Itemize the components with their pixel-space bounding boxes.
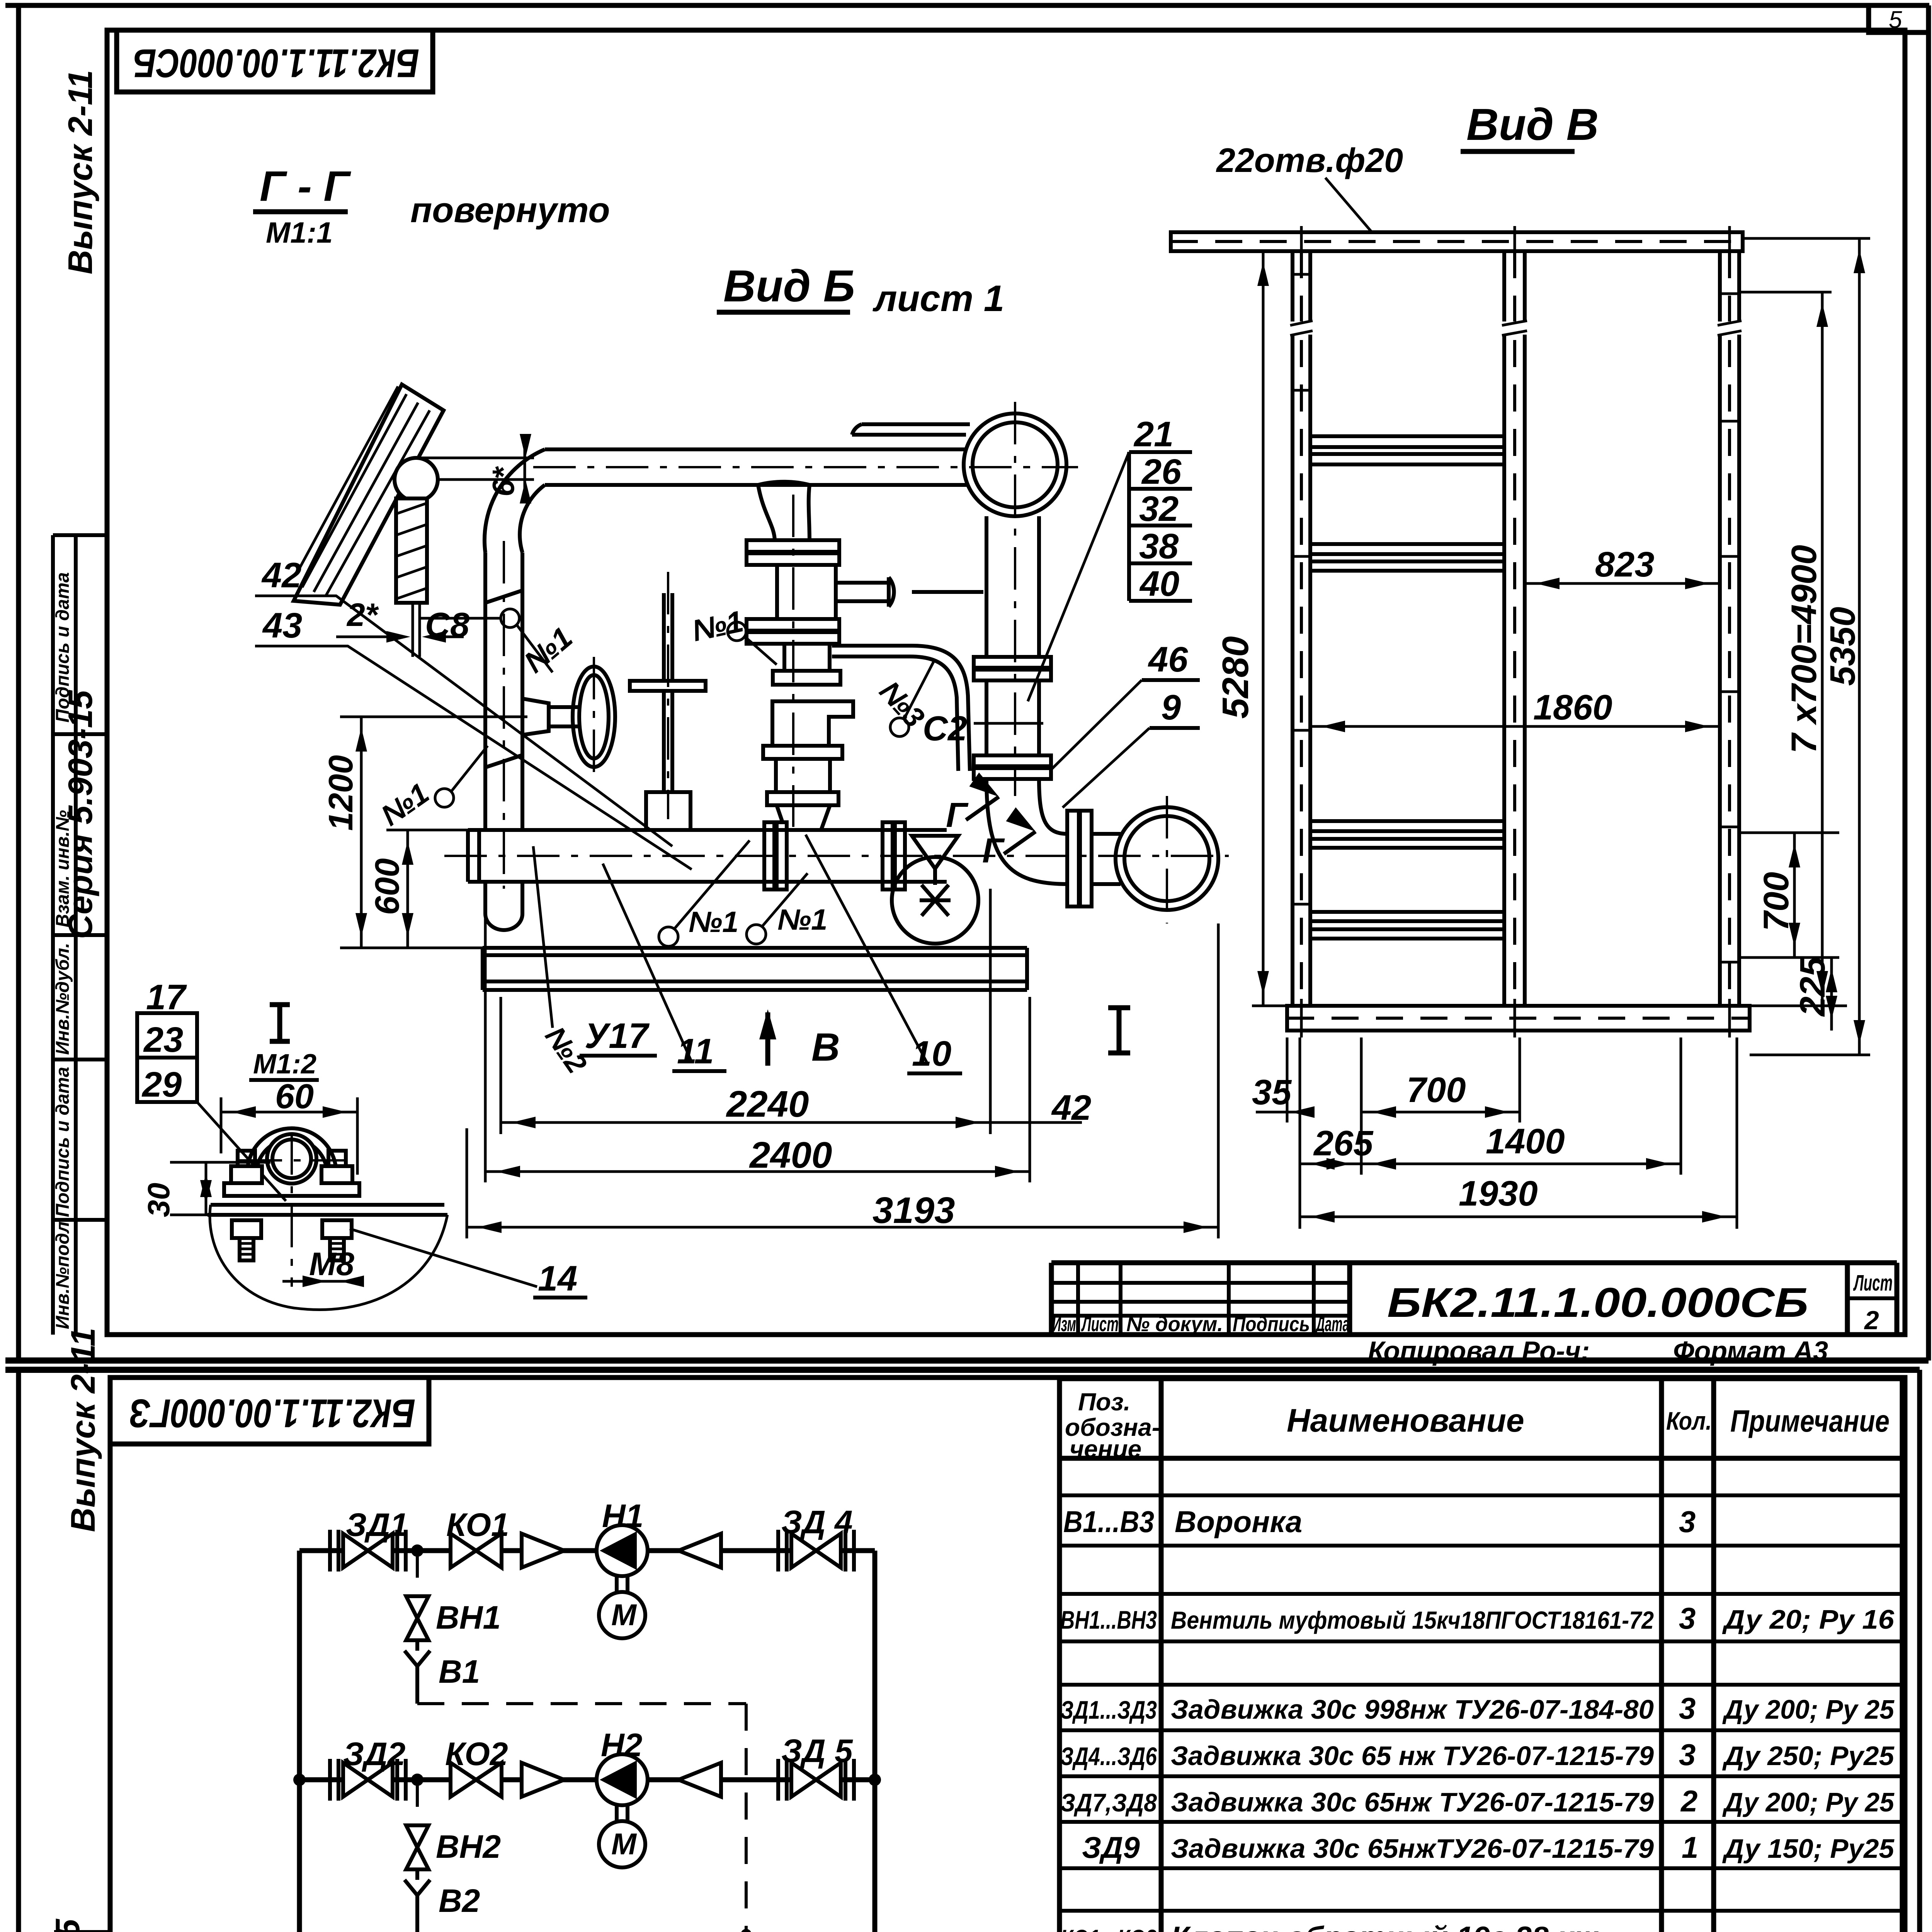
svg-text:ЗД4...ЗД6: ЗД4...ЗД6 [1060,1742,1157,1770]
svg-text:823: 823 [1595,545,1655,584]
svg-text:ВН1: ВН1 [436,1599,501,1636]
svg-text:Г - Г: Г - Г [260,163,351,210]
svg-text:Лист: Лист [1081,1313,1119,1336]
svg-text:23: 23 [143,1020,183,1060]
wire funnel to drain header [415,1676,419,1704]
svg-text:Задвижка 30с 65нж ТУ26-07-1215: Задвижка 30с 65нж ТУ26-07-1215-79 [1171,1787,1654,1817]
wire: dashed drain header row1 [417,1702,746,1705]
svg-text:Воронка: Воронка [1175,1505,1302,1539]
handwheel ellipse on left valve [573,667,615,767]
section mark I [270,1005,290,1041]
reducer cone left row1 [522,1534,564,1568]
svg-text:Лист: Лист [1853,1270,1893,1296]
drain funnel and valve at base right [912,836,958,869]
node manifold row2 [293,1774,306,1786]
sheet2 outer top edge [5,1367,1920,1373]
vent branch 2 [416,1780,419,1825]
svg-text:3: 3 [1679,1601,1696,1635]
crossbar pair 2 [1310,544,1504,571]
center valve neck [784,644,830,671]
sheet1 outer right edge [1926,5,1931,1361]
svg-text:11: 11 [677,1032,714,1071]
pump Н1 [597,1525,648,1576]
left rail [1293,251,1310,1006]
valve ЗД4 [778,1530,854,1571]
center valve upper body [777,565,836,619]
right pipe continues [986,680,1039,755]
svg-text:26: 26 [1141,452,1182,492]
svg-text:Поз.: Поз. [1078,1388,1131,1416]
right elbow body down to outlet [986,779,1067,884]
svg-text:КО1...КО3: КО1...КО3 [1060,1924,1157,1932]
svg-text:43: 43 [262,606,302,645]
svg-text:Н1: Н1 [602,1498,643,1534]
svg-text:Ду 200; Ру 25: Ду 200; Ру 25 [1722,1787,1895,1817]
view arrow В [765,1012,770,1066]
wire: right collector vertical [872,1551,878,1932]
center valve main body [772,701,853,746]
svg-text:КО1: КО1 [446,1507,509,1543]
wire: pump row 2 [299,1777,875,1782]
svg-text:600: 600 [368,858,406,915]
svg-text:ЗД 5: ЗД 5 [781,1733,853,1769]
svg-text:Выпуск 2-11: Выпуск 2-11 [64,1328,102,1532]
lower nuts and studs [232,1220,261,1238]
left pipe lower elbow below base [485,882,522,930]
svg-text:чение: чение [1070,1435,1141,1463]
svg-text:Изм: Изм [1052,1313,1076,1336]
svg-text:21: 21 [1133,415,1173,454]
svg-text:Вид В: Вид В [1466,99,1599,150]
bottom beam [1287,1006,1750,1031]
svg-text:29: 29 [141,1065,182,1104]
base plate [207,1205,447,1215]
thin pipe lines below [412,603,414,657]
svg-text:700: 700 [1406,1070,1466,1110]
svg-text:Дата: Дата [1315,1313,1349,1336]
svg-text:7 х700=4900: 7 х700=4900 [1784,545,1824,753]
handwheel stem to left pipe [527,707,580,726]
right vertical pipe from circle [986,516,1039,657]
motor М2 [599,1821,645,1867]
svg-text:Вентиль муфтовый 15кч18ПГОСТ18: Вентиль муфтовый 15кч18ПГОСТ18161-72 [1171,1606,1654,1634]
svg-text:ЗД1: ЗД1 [346,1507,408,1543]
svg-text:№1: №1 [777,903,827,936]
svg-text:700: 700 [1757,872,1796,932]
svg-text:БК2.11.1.00.000СБ: БК2.11.1.00.000СБ [133,41,419,85]
svg-text:БК2.11.1.00.000СБ: БК2.11.1.00.000СБ [1387,1279,1808,1326]
sheet1 outer bottom edge [5,1357,1929,1364]
svg-text:Примечание: Примечание [1730,1404,1889,1438]
middle rail [1504,251,1525,1006]
svg-text:5350: 5350 [1823,607,1862,686]
svg-text:32: 32 [1139,489,1179,529]
svg-text:1930: 1930 [1459,1174,1538,1213]
svg-text:Взам. инв.№: Взам. инв.№ [53,810,73,927]
svg-text:46: 46 [1148,640,1188,679]
svg-text:В: В [811,1025,840,1069]
section mark I (right) [1108,1008,1130,1053]
reducer cone left row2 [522,1763,564,1797]
vertical hatched gasket bar [396,498,427,603]
svg-text:Копировал Ро-ч:: Копировал Ро-ч: [1368,1336,1590,1366]
sheet1 left margin cell column [53,535,107,1335]
pipe circles [267,1134,316,1184]
valve ЗД1 [330,1530,406,1571]
svg-text:3: 3 [1679,1691,1696,1725]
svg-text:М8: М8 [309,1246,354,1282]
svg-text:5280: 5280 [1215,636,1256,719]
breakout freeform edge [210,1205,447,1310]
crossbar pair 1 [1310,436,1504,464]
page number 5 box top-right [1869,5,1929,32]
svg-text:Формат А3: Формат А3 [1673,1336,1828,1366]
svg-text:Н2: Н2 [601,1727,642,1763]
svg-text:БК2.11.1.00.000ГЗ: БК2.11.1.00.000ГЗ [129,1391,415,1435]
svg-text:Наименование: Наименование [1287,1402,1524,1439]
svg-text:№ докум.: № докум. [1126,1313,1223,1336]
funnel В1 [405,1651,430,1676]
svg-text:40: 40 [1139,564,1179,604]
svg-text:2: 2 [1680,1784,1697,1818]
sheet2 outer right edge [1917,1370,1922,1932]
shaft Н1 [617,1576,628,1592]
svg-text:2240: 2240 [726,1083,809,1125]
svg-text:ВН2: ВН2 [436,1828,501,1865]
svg-text:С8: С8 [425,606,469,645]
svg-text:14: 14 [538,1259,577,1298]
top horizontal pipe [545,449,968,485]
svg-text:М1:1: М1:1 [266,216,333,249]
curved branch Nо3 [832,646,970,771]
svg-text:3193: 3193 [872,1190,955,1231]
crossbar pair 3 [1310,821,1504,848]
dim 6* [421,440,534,498]
svg-text:1400: 1400 [1486,1122,1565,1161]
centerlines [444,855,1229,857]
crossbar pair 4 [1310,912,1504,939]
svg-text:Ду 200; Ру 25: Ду 200; Ру 25 [1722,1694,1895,1725]
svg-text:2: 2 [1864,1306,1879,1335]
svg-text:Серия 5.903-15: Серия 5.903-15 [48,1918,87,1932]
diffuser cone right row1 [679,1534,721,1568]
sheet2 outer left edge [16,1370,21,1932]
diffuser cone right row2 [679,1763,721,1797]
node drain header row2 [741,1929,752,1932]
outlet flange bars [1067,811,1079,906]
svg-text:1200: 1200 [321,755,360,831]
outlet pipe to end circle [1092,834,1121,884]
pipe wall diagonal hatched strip [294,384,444,605]
wire: pump row 1 [299,1548,875,1553]
base pipe flange pair left [764,822,774,889]
node row2-branch [411,1774,423,1786]
leader from stack to clamp [197,1102,286,1201]
pump Н2 [597,1754,648,1805]
sheet2 stamp box (rotated doc number) [110,1378,429,1444]
svg-text:Ду 250; Ру25: Ду 250; Ру25 [1722,1741,1895,1771]
svg-text:Г: Г [946,796,969,835]
top beam [1171,232,1743,251]
svg-text:лист 1: лист 1 [872,278,1004,319]
svg-text:ЗД 4: ЗД 4 [781,1504,853,1540]
svg-text:Ду 20; Ру 16: Ду 20; Ру 16 [1722,1604,1895,1634]
svg-text:ЗД7,ЗД8: ЗД7,ЗД8 [1060,1788,1157,1817]
svg-text:Выпуск 2-11: Выпуск 2-11 [61,70,99,274]
svg-text:225: 225 [1793,956,1832,1017]
wire: dashed drain downpipe [745,1704,748,1932]
svg-text:1860: 1860 [1533,688,1612,727]
svg-text:Инв.№дубл.: Инв.№дубл. [53,943,73,1055]
left vertical pipe [485,553,522,830]
base pipe left end cap [468,830,479,882]
svg-text:ВН1...ВН3: ВН1...ВН3 [1060,1605,1157,1634]
right rail [1720,251,1739,1006]
svg-text:22отв.ф20: 22отв.ф20 [1216,141,1403,179]
vent valve ВН1 [406,1596,429,1640]
svg-text:Задвижка 30с 998нж ТУ26-07-184: Задвижка 30с 998нж ТУ26-07-184-80 [1171,1694,1654,1725]
motor М1 [599,1592,645,1638]
valve ЗД2 [330,1759,406,1801]
branch pipe right with cap [836,577,894,607]
svg-text:38: 38 [1139,527,1179,566]
top-right big flange circle [964,413,1066,516]
svg-text:С2: С2 [923,709,967,748]
svg-text:В1: В1 [439,1653,480,1690]
svg-text:Г: Г [982,832,1005,870]
svg-text:Клапан обратный 19с 38 нж: Клапан обратный 19с 38 нж [1171,1920,1599,1932]
svg-text:5: 5 [1889,7,1902,33]
svg-text:Подпись: Подпись [1233,1313,1310,1336]
left elbow [485,449,545,553]
svg-text:ЗД2: ЗД2 [343,1736,405,1772]
left pipe weld tick marks [485,590,522,767]
right pipe flange pair [974,657,1051,668]
rail break left [1289,321,1313,335]
sheet2 inner frame [110,1378,1905,1932]
svg-text:42: 42 [261,556,301,595]
wire: left manifold vertical [297,1551,302,1932]
svg-text:2400: 2400 [749,1134,832,1176]
center valve: elbow from top pipe [758,482,810,541]
base horizontal pipe [468,830,947,882]
reducer cone to base pipe [777,805,830,830]
svg-text:№1: №1 [689,906,738,939]
right pipe lower flange pair [974,755,1051,766]
vent branch 1: wire dashed [416,1551,419,1596]
svg-text:10: 10 [912,1034,951,1073]
centerlines [291,1132,293,1287]
svg-text:Задвижка 30с 65 нж ТУ26-07-121: Задвижка 30с 65 нж ТУ26-07-1215-79 [1171,1741,1654,1771]
rail hole cross ticks [1291,274,1741,962]
center valve flange 1 [747,540,839,552]
svg-text:Ду 150; Ру25: Ду 150; Ру25 [1722,1833,1895,1864]
check valve КО1 [451,1534,502,1568]
clamp saddle strap [224,1128,359,1196]
svg-text:В2: В2 [439,1883,480,1919]
svg-text:Вид Б: Вид Б [723,261,855,311]
center valve flange 2 [747,619,839,631]
beam hole ticks [1301,226,1730,257]
sheet1 inner frame [107,30,1905,1335]
leader №1 left lower [435,789,454,807]
valve ЗД5 [778,1759,854,1801]
check valve КО2 [451,1763,502,1797]
svg-text:ЗД9: ЗД9 [1082,1830,1140,1864]
outlet big circle [1116,807,1218,910]
svg-text:Инв.№подл.: Инв.№подл. [53,1216,73,1329]
node collector row2 [869,1774,881,1786]
node row1-branch [411,1544,423,1557]
sheet1 outer top edge [5,3,1929,8]
svg-text:Кол.: Кол. [1666,1406,1712,1435]
svg-text:У17: У17 [585,1016,650,1056]
base channel frame [483,948,1027,990]
shaft Н2 [617,1805,628,1821]
svg-text:17: 17 [146,978,187,1017]
svg-text:9: 9 [1161,688,1181,727]
svg-text:ЗД1...ЗД3: ЗД1...ЗД3 [1060,1696,1157,1724]
svg-text:30: 30 [141,1183,176,1217]
svg-text:Подпись и дата: Подпись и дата [53,1067,73,1217]
svg-text:М1:2: М1:2 [253,1049,316,1080]
sheet1 outer left edge [16,5,21,1361]
svg-text:3: 3 [1679,1505,1696,1539]
T-stem valve [664,593,672,792]
leader 14 [350,1229,537,1287]
svg-text:3: 3 [1679,1738,1696,1772]
rod cross-section circle [395,458,438,501]
svg-text:В1...В3: В1...В3 [1063,1505,1154,1539]
svg-text:1: 1 [1682,1830,1698,1864]
top bolts [231,1166,262,1183]
sheet1 stamp box (rotated doc number) [117,30,433,92]
svg-text:265: 265 [1313,1124,1374,1163]
svg-text:Задвижка 30с 65нжТУ26-07-1215-: Задвижка 30с 65нжТУ26-07-1215-79 [1171,1833,1654,1864]
center valve lower body [776,759,830,792]
svg-text:60: 60 [275,1077,314,1116]
svg-text:Подпись и дата: Подпись и дата [53,572,73,723]
svg-text:повернуто: повернуто [410,190,610,230]
wire to funnel В1 [415,1640,419,1651]
second pipe behind top pipe [852,424,970,435]
svg-text:КО2: КО2 [445,1736,508,1772]
